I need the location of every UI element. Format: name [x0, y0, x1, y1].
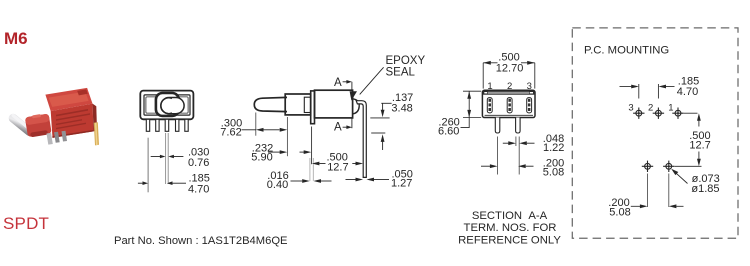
svg-text:TERM. NOS. FOR: TERM. NOS. FOR [464, 222, 557, 234]
svg-text:3: 3 [527, 81, 532, 92]
svg-text:7.62: 7.62 [220, 127, 241, 139]
svg-text:0.76: 0.76 [188, 157, 209, 169]
svg-text:EPOXY: EPOXY [386, 55, 426, 67]
svg-text:2: 2 [507, 81, 512, 92]
svg-text:0.40: 0.40 [267, 179, 288, 191]
svg-text:1: 1 [668, 102, 673, 113]
svg-text:6.60: 6.60 [438, 125, 459, 137]
svg-text:P.C. MOUNTING: P.C. MOUNTING [584, 45, 669, 57]
svg-text:A: A [334, 77, 342, 89]
svg-text:Part No. Shown : 1AS1T2B4M6QE: Part No. Shown : 1AS1T2B4M6QE [114, 235, 288, 247]
svg-text:12.7: 12.7 [689, 140, 710, 152]
svg-text:12.7: 12.7 [327, 162, 348, 174]
svg-text:ø1.85: ø1.85 [691, 183, 719, 195]
svg-text:4.70: 4.70 [188, 183, 209, 195]
svg-text:REFERENCE ONLY: REFERENCE ONLY [458, 234, 561, 246]
svg-text:12.70: 12.70 [496, 62, 524, 74]
svg-text:5.90: 5.90 [251, 151, 272, 163]
svg-text:3.48: 3.48 [391, 103, 412, 115]
svg-text:5.08: 5.08 [609, 207, 630, 219]
svg-text:4.70: 4.70 [677, 86, 698, 98]
svg-text:1.27: 1.27 [391, 177, 412, 189]
svg-text:SEAL: SEAL [386, 67, 416, 79]
svg-text:SPDT: SPDT [3, 214, 49, 233]
svg-text:M6: M6 [4, 29, 28, 48]
svg-text:1: 1 [487, 81, 492, 92]
svg-text:1.22: 1.22 [543, 142, 564, 154]
svg-text:5.08: 5.08 [543, 166, 564, 178]
svg-text:2: 2 [648, 102, 653, 113]
svg-text:3: 3 [628, 102, 633, 113]
svg-text:A: A [334, 121, 342, 133]
svg-text:SECTION A-A: SECTION A-A [472, 210, 548, 222]
